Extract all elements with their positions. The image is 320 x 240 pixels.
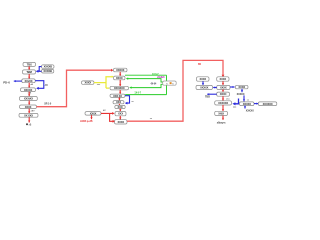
block T7 (wide) bbox=[215, 101, 232, 105]
svg-text:XXXXX: XXXXX bbox=[243, 102, 252, 106]
wire T6->T7 bbox=[222, 96, 224, 100]
terminator end-left (dot + label) bbox=[26, 123, 32, 126]
arrowhead into M8 bbox=[113, 120, 115, 123]
svg-text:XX XXX: XX XXX bbox=[24, 113, 33, 117]
wire M8 -> T1 (long red loop) bbox=[127, 60, 223, 121]
block M4 bbox=[110, 94, 125, 98]
wire T5->RC (blue) bbox=[213, 86, 217, 88]
svg-text:XXXXX: XXXXX bbox=[237, 93, 245, 96]
svg-text:XXtX: XXtX bbox=[218, 111, 224, 115]
wire blue elbow into T7 right bbox=[235, 99, 239, 104]
svg-text:SR 1-0: SR 1-0 bbox=[44, 102, 52, 105]
svg-text:AB: AB bbox=[45, 84, 49, 87]
svg-text:xBY: xBY bbox=[31, 110, 36, 112]
svg-text:XXXXXX: XXXXXX bbox=[263, 102, 273, 106]
svg-text:XXXXB: XXXXB bbox=[43, 69, 52, 73]
block RA (top-left) bbox=[197, 77, 210, 81]
svg-text:x8x8x8: x8x8x8 bbox=[157, 76, 165, 79]
arrowhead blue into M5 bbox=[125, 102, 128, 105]
wire yellow Lbl1->M2/M3 bbox=[94, 77, 113, 88]
block Proc (PD row) bbox=[22, 79, 35, 83]
block U1 bbox=[235, 85, 248, 89]
svg-text:XXXXB: XXXXB bbox=[44, 65, 53, 69]
block SideA2 bbox=[42, 69, 54, 73]
block Step5 bbox=[21, 88, 36, 92]
block T5 bbox=[217, 85, 230, 89]
block G1 (green hub box) bbox=[163, 81, 177, 85]
block T6 bbox=[217, 92, 230, 96]
svg-text:XXX XX: XXX XX bbox=[113, 94, 122, 98]
block MidTop M1 bbox=[114, 68, 128, 72]
wire Init->Cfg bbox=[28, 66, 30, 69]
wire Step8->end bbox=[28, 117, 30, 122]
block T8 bbox=[215, 111, 228, 115]
wire T1->T5 bbox=[222, 81, 224, 85]
arrowhead blue into T7 bbox=[232, 102, 235, 105]
block M6 bbox=[115, 105, 125, 109]
svg-text:XXXX: XXXX bbox=[90, 111, 97, 115]
svg-text:1X 6-7: 1X 6-7 bbox=[134, 92, 141, 95]
wire note->U3 (blue) bbox=[243, 95, 245, 101]
wire M7->M8 bbox=[119, 116, 121, 120]
wire M4->M5 bbox=[118, 97, 120, 100]
svg-text:XXXtXX: XXXtXX bbox=[24, 97, 33, 101]
arrowhead into M7 bbox=[112, 112, 114, 115]
svg-text:XXXX: XXXX bbox=[200, 77, 207, 81]
block M5 bbox=[113, 100, 124, 104]
wire RA->RC (blue) bbox=[202, 81, 204, 85]
svg-text:4X-64: 4X-64 bbox=[151, 82, 157, 85]
wire T5->U1 (blue) bbox=[230, 86, 235, 88]
block Step6 (wide) bbox=[20, 97, 38, 101]
wire T6->TBD (blue) bbox=[207, 93, 217, 95]
svg-text:XXXX: XXXX bbox=[25, 105, 32, 109]
svg-text:XXXXX: XXXXX bbox=[246, 109, 254, 112]
svg-text:xB: xB bbox=[29, 124, 32, 126]
block M3 (wide) bbox=[110, 86, 129, 90]
wire T8->end bbox=[222, 116, 224, 120]
wire Step5->Step6 bbox=[28, 92, 30, 97]
block Step8 (wide) bbox=[19, 113, 38, 117]
arrowhead into Step5 bbox=[36, 87, 39, 90]
block T1 (top) bbox=[217, 77, 229, 81]
wire Step7->Step8 bbox=[28, 109, 30, 114]
wire Lbl2->note (red, down) bbox=[90, 115, 92, 119]
svg-text:XXXX: XXXX bbox=[116, 76, 123, 80]
block U3 bbox=[240, 102, 255, 106]
arrowhead yellow into M2 bbox=[112, 76, 114, 78]
arrowhead into MidTop bbox=[111, 69, 113, 72]
wire green B: G1 -> M2 bbox=[128, 79, 163, 82]
svg-text:XXXX: XXXX bbox=[118, 120, 125, 124]
svg-text:TBD: TBD bbox=[205, 96, 210, 99]
block M7 bbox=[115, 112, 126, 116]
wire green A: M2 top -> G1 vertical bbox=[125, 74, 167, 76]
block Lbl2 (feeds M7/M8) bbox=[85, 111, 101, 115]
arrowhead green into M2 bbox=[126, 77, 128, 79]
svg-text:L8316 p+3B: L8316 p+3B bbox=[80, 120, 93, 123]
wire M3->M4 bbox=[119, 90, 121, 94]
wire green D: M4 -> G1 bottom bbox=[125, 94, 166, 96]
svg-text:x8xxp-x: x8xxp-x bbox=[217, 122, 226, 125]
wire Lbl2->M7 and branch to M8 (red) bbox=[101, 113, 113, 121]
svg-text:XXX: XXX bbox=[118, 112, 123, 116]
arrowhead into Cfg bbox=[36, 70, 39, 73]
wire Proc->Step5 bbox=[28, 83, 30, 88]
wire Step6->Step7 bbox=[28, 101, 30, 105]
svg-text:XXX: XXX bbox=[116, 100, 121, 104]
block SideA1 bbox=[42, 65, 55, 69]
wire Cfg->Proc bbox=[28, 74, 30, 79]
svg-text:XXXX: XXXX bbox=[238, 85, 245, 89]
svg-text:XXXXX: XXXXX bbox=[116, 68, 125, 72]
wire U1->note (blue) bbox=[241, 89, 243, 92]
wire SideA1/SideA2 -> Cfg (blue bracket) bbox=[37, 67, 42, 72]
wire M6->M7 bbox=[119, 109, 121, 112]
svg-text:TBM: TBM bbox=[26, 70, 32, 74]
block Lbl1 (feeds M2/M3, yellow) bbox=[82, 81, 95, 85]
wire U3->U4 (blue) bbox=[254, 103, 258, 105]
block M8 bbox=[115, 120, 128, 124]
wire Proc->Step5 right blue bracket bbox=[35, 81, 44, 89]
arrowhead green into M3 bbox=[129, 86, 131, 88]
svg-text:XXX: XXX bbox=[118, 105, 123, 109]
wire M2->M3 bbox=[119, 80, 121, 86]
svg-text:XXXtXXX: XXXtXXX bbox=[114, 86, 125, 90]
block U4 (far right) bbox=[258, 102, 277, 106]
svg-text:XXXX: XXXX bbox=[220, 86, 227, 90]
wire M4->M5 blue bracket bbox=[125, 96, 130, 103]
wire T7->T8 bbox=[222, 105, 224, 111]
svg-text:XXXXXX: XXXXXX bbox=[218, 101, 228, 105]
wire U3->note (blue) bbox=[244, 106, 246, 109]
wire Step7 -> MidTop (long red elbow) bbox=[37, 70, 112, 107]
svg-text:TBX: TBX bbox=[27, 62, 32, 66]
svg-text:XXxXX: XXxXX bbox=[25, 79, 33, 83]
wire T5->T6 bbox=[222, 90, 224, 92]
block M2 bbox=[114, 76, 126, 80]
block RC bbox=[196, 85, 213, 89]
svg-text:PD~0: PD~0 bbox=[3, 81, 10, 85]
block Step7 bbox=[20, 105, 37, 109]
arrowhead into T1 bbox=[222, 75, 225, 77]
svg-text:XXXX: XXXX bbox=[220, 77, 227, 81]
svg-text:XXXC: XXXC bbox=[220, 92, 227, 96]
svg-text:XXXX: XXXX bbox=[85, 81, 92, 85]
svg-text:XXXXX: XXXXX bbox=[200, 86, 209, 90]
block Init (left chain top) bbox=[23, 62, 36, 66]
wire M1->M2 bbox=[119, 72, 121, 76]
wire Proc->PD (blue, points left) bbox=[14, 80, 22, 82]
svg-text:XXXXX: XXXXX bbox=[24, 88, 33, 92]
wire green vertical through G1 bbox=[166, 75, 168, 94]
block Cfg bbox=[23, 70, 36, 74]
wire M5->M6 bbox=[118, 104, 120, 106]
wire green C: G1 -> M3 bbox=[131, 84, 163, 87]
